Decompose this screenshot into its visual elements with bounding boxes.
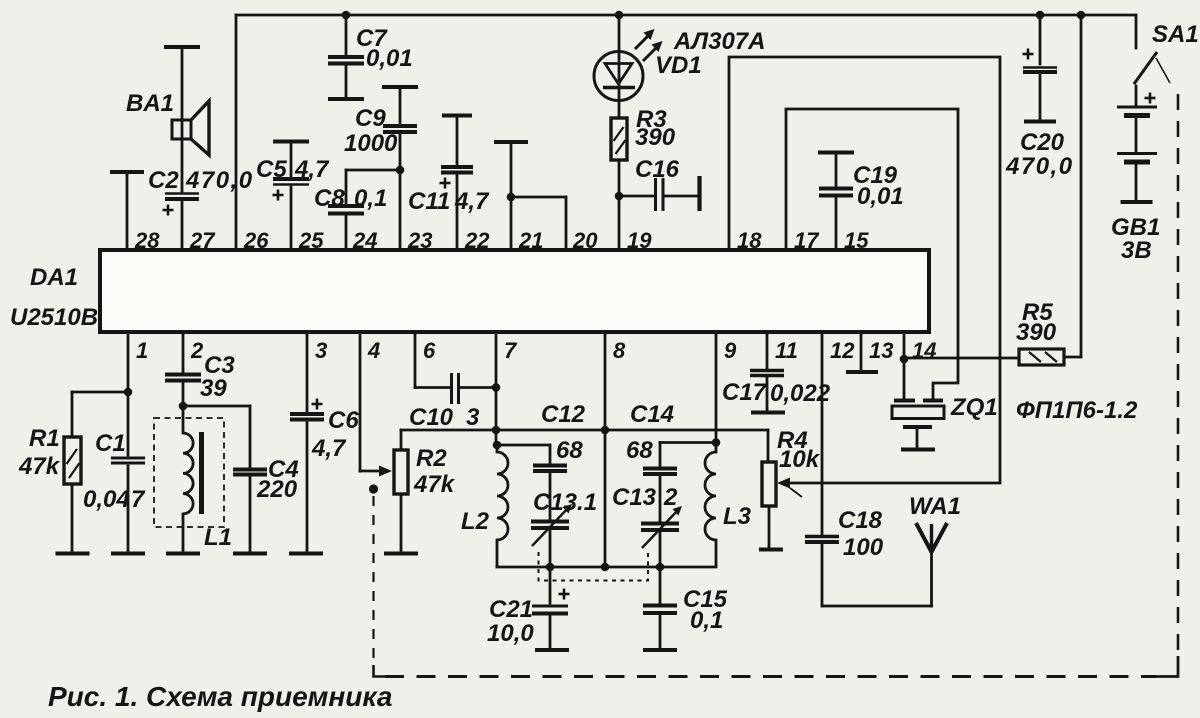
svg-text:21: 21 (518, 228, 543, 253)
svg-text:L2: L2 (461, 508, 490, 535)
svg-text:19: 19 (627, 228, 652, 253)
svg-text:3: 3 (315, 338, 327, 363)
svg-text:C21: C21 (489, 596, 533, 623)
svg-text:C12: C12 (541, 401, 586, 428)
svg-text:10,0: 10,0 (487, 620, 534, 647)
svg-text:470,0: 470,0 (185, 167, 254, 194)
svg-text:22: 22 (464, 228, 490, 253)
svg-text:2: 2 (663, 484, 678, 511)
svg-text:C11: C11 (408, 188, 450, 215)
svg-text:C14: C14 (630, 401, 674, 428)
svg-text:6: 6 (423, 338, 436, 363)
svg-text:C6: C6 (328, 407, 359, 434)
svg-text:20: 20 (572, 228, 598, 253)
svg-text:9: 9 (724, 338, 737, 363)
svg-text:68: 68 (626, 437, 653, 464)
svg-text:7: 7 (131, 486, 146, 513)
svg-text:14: 14 (912, 338, 936, 363)
svg-text:15: 15 (844, 228, 869, 253)
svg-text:3: 3 (466, 404, 480, 431)
svg-text:0,022: 0,022 (770, 380, 831, 407)
svg-text:BA1: BA1 (126, 90, 174, 117)
svg-text:C17: C17 (722, 379, 768, 406)
svg-text:4,7: 4,7 (294, 156, 330, 183)
svg-text:7: 7 (504, 338, 518, 363)
svg-text:C10: C10 (409, 404, 454, 431)
svg-text:4,7: 4,7 (311, 435, 347, 462)
svg-text:C8: C8 (314, 185, 345, 212)
svg-text:U2510В: U2510В (10, 304, 98, 331)
svg-text:R1: R1 (29, 425, 60, 452)
svg-text:C1: C1 (95, 430, 126, 457)
svg-text:C9: C9 (355, 105, 386, 132)
svg-text:АЛ307А: АЛ307А (673, 28, 766, 55)
svg-text:0,1: 0,1 (354, 185, 387, 212)
svg-text:C20: C20 (1020, 129, 1065, 156)
svg-text:17: 17 (794, 228, 820, 253)
svg-text:0,01: 0,01 (857, 183, 904, 210)
svg-text:23: 23 (407, 228, 432, 253)
svg-text:26: 26 (243, 228, 269, 253)
svg-text:47k: 47k (413, 471, 456, 498)
svg-text:R2: R2 (416, 445, 447, 472)
svg-text:C13.1: C13.1 (533, 489, 597, 516)
svg-text:10k: 10k (779, 446, 821, 473)
svg-text:SA1: SA1 (1152, 21, 1199, 48)
svg-text:L3: L3 (723, 503, 752, 530)
svg-text:0,04: 0,04 (83, 486, 130, 513)
svg-text:8: 8 (613, 338, 626, 363)
svg-text:18: 18 (737, 228, 762, 253)
svg-text:28: 28 (134, 228, 160, 253)
svg-text:11: 11 (775, 338, 798, 363)
svg-text:C13: C13 (612, 484, 657, 511)
svg-text:Рис. 1. Схема приемника: Рис. 1. Схема приемника (48, 681, 393, 712)
svg-text:12: 12 (830, 338, 855, 363)
svg-text:4,7: 4,7 (454, 188, 490, 215)
svg-text:0,1: 0,1 (690, 607, 723, 634)
svg-text:470,0: 470,0 (1005, 153, 1074, 180)
svg-text:13: 13 (869, 338, 893, 363)
svg-text:39: 39 (200, 375, 227, 402)
svg-text:VD1: VD1 (655, 52, 702, 79)
svg-text:390: 390 (635, 124, 676, 151)
svg-text:1000: 1000 (344, 130, 398, 157)
svg-text:24: 24 (352, 228, 377, 253)
svg-text:ZQ1: ZQ1 (950, 394, 998, 421)
svg-text:4: 4 (367, 338, 380, 363)
svg-text:220: 220 (256, 476, 298, 503)
svg-text:DA1: DA1 (30, 264, 78, 291)
svg-text:WA1: WA1 (909, 493, 961, 520)
svg-text:L1: L1 (204, 524, 232, 551)
svg-text:ФП1П6-1.2: ФП1П6-1.2 (1016, 397, 1138, 424)
svg-text:C5: C5 (256, 156, 287, 183)
svg-text:3В: 3В (1121, 237, 1152, 264)
svg-text:390: 390 (1016, 319, 1057, 346)
svg-text:100: 100 (843, 534, 884, 561)
svg-text:1: 1 (136, 338, 148, 363)
svg-text:47k: 47k (18, 453, 61, 480)
svg-text:25: 25 (298, 228, 324, 253)
svg-text:68: 68 (556, 437, 583, 464)
svg-text:C2: C2 (148, 167, 179, 194)
svg-text:27: 27 (189, 228, 216, 253)
svg-text:0,01: 0,01 (366, 45, 413, 72)
svg-text:2: 2 (190, 338, 204, 363)
svg-text:C18: C18 (838, 507, 883, 534)
svg-text:C16: C16 (635, 156, 680, 183)
